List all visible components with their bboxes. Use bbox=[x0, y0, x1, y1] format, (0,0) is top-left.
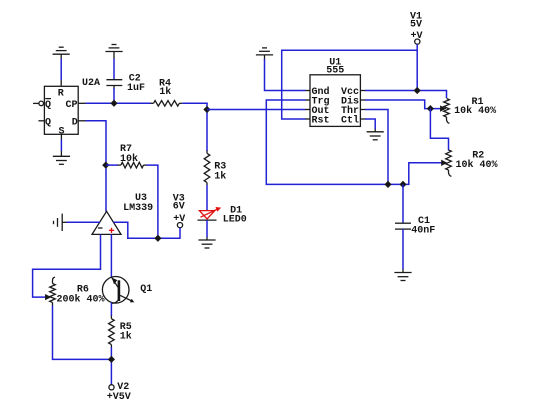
svg-text:LED0: LED0 bbox=[223, 214, 247, 225]
svg-text:LM339: LM339 bbox=[123, 203, 153, 214]
U1 Out pin stub bbox=[305, 109, 310, 111]
junction V+ node bbox=[155, 236, 160, 241]
junction Thr net bbox=[385, 182, 390, 187]
R2 wiper arrow bbox=[442, 161, 446, 165]
junction R5/R6/V2 node bbox=[109, 357, 114, 362]
U1 Thr pin stub bbox=[360, 109, 365, 111]
ground above 555 Gnd net bbox=[256, 48, 273, 60]
wire LED cathode to ground bbox=[206, 220, 208, 237]
source V2 circle bbox=[109, 385, 114, 390]
wire U3 right power pin to V+ node bbox=[113, 222, 180, 238]
wire Thr pin down to net bbox=[365, 110, 388, 185]
wire C2 to CP node bbox=[113, 88, 115, 103]
junction V1/Vcc node bbox=[415, 88, 420, 93]
svg-text:10k 40%: 10k 40% bbox=[456, 159, 498, 171]
op-amp U3 triangle bbox=[92, 211, 121, 234]
ground above C2 bbox=[105, 45, 122, 60]
wire R7 to V+ node bbox=[147, 165, 158, 238]
U1 Rst pin stub bbox=[305, 118, 310, 120]
wire inverting input to R6 wiper bbox=[33, 234, 101, 297]
R6 wiper arrow bbox=[46, 295, 50, 299]
U3 minus input mark bbox=[98, 227, 103, 229]
wire Trg pin to Thr net bbox=[266, 100, 409, 184]
capacitor C2 bbox=[106, 80, 122, 89]
svg-text:10k 40%: 10k 40% bbox=[454, 105, 496, 117]
potentiometer R1 bbox=[444, 99, 450, 124]
wire Vcc row to R1 bbox=[365, 91, 447, 99]
wire V3 to V+ node bbox=[179, 228, 181, 239]
svg-text:Rst: Rst bbox=[312, 116, 330, 127]
svg-text:555: 555 bbox=[326, 66, 344, 77]
wire Q1 emitter to R5 bbox=[110, 303, 112, 317]
ground below LED D1 bbox=[198, 237, 215, 249]
ground below C1 bbox=[394, 269, 411, 281]
wire output node to R7 bbox=[106, 164, 118, 166]
U3 plus input mark bbox=[109, 228, 114, 233]
ground left of op-amp U3 bbox=[54, 214, 68, 231]
svg-text:1k: 1k bbox=[159, 86, 171, 98]
junction R4/Out/R3 node bbox=[204, 107, 209, 112]
junction R7/output node bbox=[103, 162, 108, 167]
wire Dis pin to R1 wiper bbox=[365, 100, 442, 109]
R1 wiper arrow bbox=[441, 107, 445, 111]
LED D1 symbol bbox=[199, 208, 219, 219]
wire R6 bottom to V2 node bbox=[53, 306, 112, 360]
U2A D pin stub bbox=[78, 120, 86, 122]
wire node down to R3 bbox=[206, 103, 208, 151]
resistor R4 bbox=[151, 101, 183, 107]
svg-text:Q: Q bbox=[45, 100, 51, 111]
wire C1 to ground bbox=[402, 229, 404, 269]
wire ground to U3 left power pin bbox=[67, 221, 100, 223]
svg-text:S: S bbox=[59, 126, 65, 137]
capacitor C1 bbox=[395, 223, 411, 229]
U1 Dis pin stub bbox=[360, 99, 365, 101]
svg-text:+V: +V bbox=[411, 31, 423, 42]
wire R1 node to R2 top bbox=[430, 109, 448, 151]
svg-text:D: D bbox=[72, 117, 78, 128]
svg-text:CP: CP bbox=[66, 100, 78, 111]
wire ground to R pin bbox=[60, 59, 62, 81]
source V1 circle bbox=[415, 39, 420, 44]
potentiometer R6 bbox=[50, 277, 56, 306]
svg-text:1k: 1k bbox=[214, 170, 226, 182]
wire ground to C2 bbox=[113, 59, 115, 81]
flip-flop U2A box bbox=[44, 86, 78, 134]
wire CP row bbox=[86, 102, 151, 104]
U1 Gnd pin stub bbox=[305, 90, 310, 92]
U2A CP pin stub bbox=[78, 102, 86, 104]
wire R3 to LED anode bbox=[206, 185, 208, 211]
junction C2/CP node bbox=[111, 101, 116, 106]
junction Dis/R1 node bbox=[428, 106, 433, 111]
wire Out row bbox=[207, 109, 306, 111]
svg-text:40nF: 40nF bbox=[411, 226, 435, 237]
wire Gnd pin to ground bbox=[265, 59, 306, 91]
U2A Q pin stub bbox=[38, 120, 44, 122]
svg-text:10k: 10k bbox=[120, 153, 138, 165]
transistor Q1 bbox=[102, 277, 134, 304]
source V3 circle bbox=[177, 223, 182, 228]
svg-text:Ctl: Ctl bbox=[341, 115, 359, 127]
wire R4 to node bbox=[182, 102, 208, 104]
svg-text:1k: 1k bbox=[120, 331, 132, 343]
resistor R5 bbox=[109, 316, 115, 348]
LED D1 cathode bar bbox=[198, 219, 217, 221]
junction C1 net bbox=[400, 182, 405, 187]
U1 Ctl pin stub bbox=[360, 118, 365, 120]
ground below 555 Ctl pin bbox=[367, 128, 384, 140]
wire Rst pin to V1 bbox=[282, 50, 418, 119]
svg-text:1uF: 1uF bbox=[127, 83, 145, 94]
svg-text:5V: 5V bbox=[410, 20, 422, 31]
svg-text:R: R bbox=[58, 89, 64, 100]
potentiometer R2 bbox=[446, 150, 452, 176]
wire net down to C1 bbox=[402, 184, 404, 223]
svg-text:Q1: Q1 bbox=[140, 284, 152, 295]
resistor R7 bbox=[118, 162, 148, 168]
wire Thr net to R2 wiper bbox=[409, 163, 442, 185]
svg-text:U2A: U2A bbox=[82, 78, 100, 89]
wire V1 to Vcc node bbox=[416, 44, 418, 91]
U1 Trg pin stub bbox=[305, 99, 310, 101]
wire D pin to comparator output bbox=[86, 121, 107, 212]
ground below U2A S pin bbox=[53, 134, 70, 164]
resistor R3 bbox=[204, 151, 210, 186]
wire Ctl pin to ground bbox=[365, 119, 375, 129]
wire noninverting input to Q1 bbox=[110, 234, 112, 277]
svg-text:200k 40%: 200k 40% bbox=[57, 293, 105, 305]
svg-text:+V5V: +V5V bbox=[107, 392, 131, 403]
svg-text:+V: +V bbox=[173, 214, 185, 225]
svg-text:6V: 6V bbox=[173, 202, 185, 213]
U1 Vcc pin stub bbox=[360, 90, 365, 92]
timer U1 box bbox=[310, 75, 360, 127]
ground above U2A R pin bbox=[53, 47, 70, 86]
svg-text:Q: Q bbox=[45, 117, 51, 128]
wire S pin to ground bbox=[60, 140, 62, 152]
U2A Qbar pin bubble and stub bbox=[33, 101, 44, 106]
wire R5 to V2 bbox=[110, 347, 112, 385]
